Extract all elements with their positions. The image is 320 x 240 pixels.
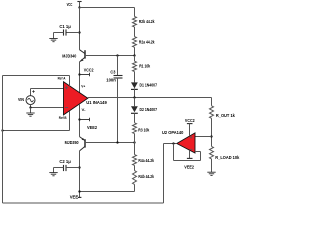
diode D2 [131,98,138,123]
svg-text:U1 INA149: U1 INA149 [86,100,107,106]
power VCC symbol [77,2,81,8]
node Ref B branch [1,129,3,131]
wire Q1 base to column [85,55,135,57]
wire Ref B [3,111,70,131]
label C3 [110,70,116,75]
resistor R1 [133,61,137,71]
resistor R2b [133,17,137,28]
resistor R_OUT [210,106,214,119]
wire R1 to D1 [134,72,136,83]
resistor R3 [133,123,137,134]
node VCC2 flag junction [78,73,80,75]
resistor R4b [133,171,137,185]
svg-text:C3: C3 [110,70,116,75]
wire VIN to ground [30,108,32,114]
svg-text:R4a 44.2k: R4a 44.2k [138,158,154,163]
wire U2 output [164,143,177,145]
net flag VCC2 [80,73,90,77]
label R_OUT 1k [216,113,236,118]
wire R2b-R2a [134,27,136,37]
svg-text:U2 OPA140: U2 OPA140 [162,130,184,136]
label R_LOAD 10k [215,155,240,160]
ground C1 [49,39,57,42]
label U1 INA149 [86,100,107,106]
wire C3 bottom lead crossing output rail [117,78,119,143]
label R3 10k [138,128,149,133]
wire output rail corner down [211,98,213,106]
node output / diode column [133,96,135,98]
label VIN [18,97,24,102]
capacitor C3 100n [114,76,123,79]
wire Ref A [3,76,70,87]
wire U1 V- down [79,104,81,137]
label D1 1N4007 [140,83,158,88]
node base rail 2 / column [133,141,135,143]
svg-text:C1 1μ: C1 1μ [59,24,71,29]
wire C2 to ground [54,168,64,173]
transistor Q2 MJD350 [80,137,86,151]
label VEE [70,195,79,200]
label V- pin [82,107,87,112]
diode D1 [131,82,138,97]
capacitor C1 [64,29,67,35]
svg-text:VCC2: VCC2 [84,68,94,73]
svg-text:V-: V- [82,107,87,112]
svg-text:R1 10k: R1 10k [139,64,150,69]
wire sense to U2 + input [195,136,212,138]
label 100n [106,78,116,83]
wire top rail corner down [134,8,136,17]
svg-text:VEE2: VEE2 [87,125,98,130]
label C1 1u [59,24,71,29]
svg-text:R3 10k: R3 10k [138,128,149,133]
wire VIN bottom lead [31,105,64,108]
wire R_LOAD to ground [211,159,213,172]
svg-text:R_OUT 1k: R_OUT 1k [216,113,236,118]
power VCC2 symbol U2 [187,124,193,136]
svg-text:VCC2: VCC2 [185,118,195,123]
power VEE2 symbol U2 [187,150,193,158]
svg-text:100n: 100n [106,78,116,83]
label MJD350 [65,140,80,145]
wire Q1 emitter to U1 V+ [79,62,81,93]
svg-text:Ref B: Ref B [59,115,67,120]
svg-text:R2a 44.2k: R2a 44.2k [139,40,155,45]
node VEE2 flag junction [78,118,80,120]
label MJD340 [62,53,77,58]
label Ref B [59,115,67,120]
wire C1 to ground [54,33,64,39]
svg-text:MJD340: MJD340 [62,53,77,58]
wire bootstrap loop left [2,76,4,204]
net flag VEE2 [80,118,90,122]
label R2a 44.2k [139,40,155,45]
wire bootstrap loop right up [163,144,165,204]
wire Q2 collector to VEE [79,151,81,198]
node base rail / column [133,54,135,56]
svg-text:D2 1N4007: D2 1N4007 [140,107,158,112]
capacitor C2 [64,165,80,171]
svg-text:MJD350: MJD350 [65,140,80,145]
node VEE branch [78,190,80,192]
op-amp U2 OPA140 [177,133,195,153]
wire R3 to node [134,134,136,143]
svg-text:Ref A: Ref A [58,75,66,80]
label U2 OPA140 [162,130,184,136]
node VCC junction [78,6,80,8]
polarity + mark [32,90,34,92]
svg-text:VEE2: VEE2 [184,165,194,170]
node sense junction [210,135,212,137]
svg-text:R4b 44.2k: R4b 44.2k [138,174,154,179]
wire VIN top lead [31,89,64,96]
label R2b 44.2k [139,19,155,24]
wire R_OUT to node [211,118,213,146]
svg-text:V+: V+ [81,84,86,89]
label V+ pin [81,84,86,89]
source VIN [26,96,35,105]
resistor R2a [133,37,137,48]
power VEE symbol [78,196,82,198]
wire R4b to VEE rail [80,184,135,191]
svg-text:R2b 44.2k: R2b 44.2k [139,19,155,24]
label VCC2 [84,68,94,73]
label VCC [67,2,73,7]
svg-text:VEE: VEE [70,195,79,200]
resistor R_LOAD [210,146,214,159]
node C2 junction [78,166,80,168]
wire VCC down to Q1 collector [79,8,81,50]
ground VIN [26,113,34,116]
transistor Q1 MJD340 [80,50,86,62]
label VEE2 U2 [184,165,194,170]
node base rail / C3 top [116,54,118,56]
ground R_LOAD [207,172,215,175]
wire R4a-R4b [134,165,136,170]
wire U2 feedback loop [174,144,201,161]
svg-text:VIN: VIN [18,97,24,102]
label VEE2 [87,125,98,130]
wire VCC top rail [80,7,135,9]
wire C3 top lead [117,56,119,76]
svg-text:VCC: VCC [67,2,73,7]
label C2 1u [59,159,71,164]
label R4a 44.2k [138,158,154,163]
label R1 10k [139,64,150,69]
svg-text:D1 1N4007: D1 1N4007 [140,83,158,88]
wire R2a-node [134,47,136,55]
wire bootstrap loop bottom [3,202,164,204]
ground C2 [49,173,57,176]
wire output rail [88,97,212,99]
svg-text:C2 1μ: C2 1μ [59,159,71,164]
label D2 1N4007 [140,107,158,112]
svg-text:R_LOAD 10k: R_LOAD 10k [215,155,240,160]
wire node to R1 [134,56,136,62]
wire node to R4a [134,143,136,155]
node VIN ground junction [29,106,31,108]
op-amp U1 INA149 [64,82,88,115]
label Ref A [58,75,66,80]
node base rail 2 / C3 bottom [116,141,118,143]
label VCC2 U2 [185,118,195,123]
label R4b 44.2k [138,174,154,179]
wire Q2 base to column [85,142,135,144]
node U2 feedback junction [172,142,174,144]
wire C1 to VCC line [66,32,80,34]
node C1 junction [78,31,80,33]
resistor R4a [133,155,137,166]
